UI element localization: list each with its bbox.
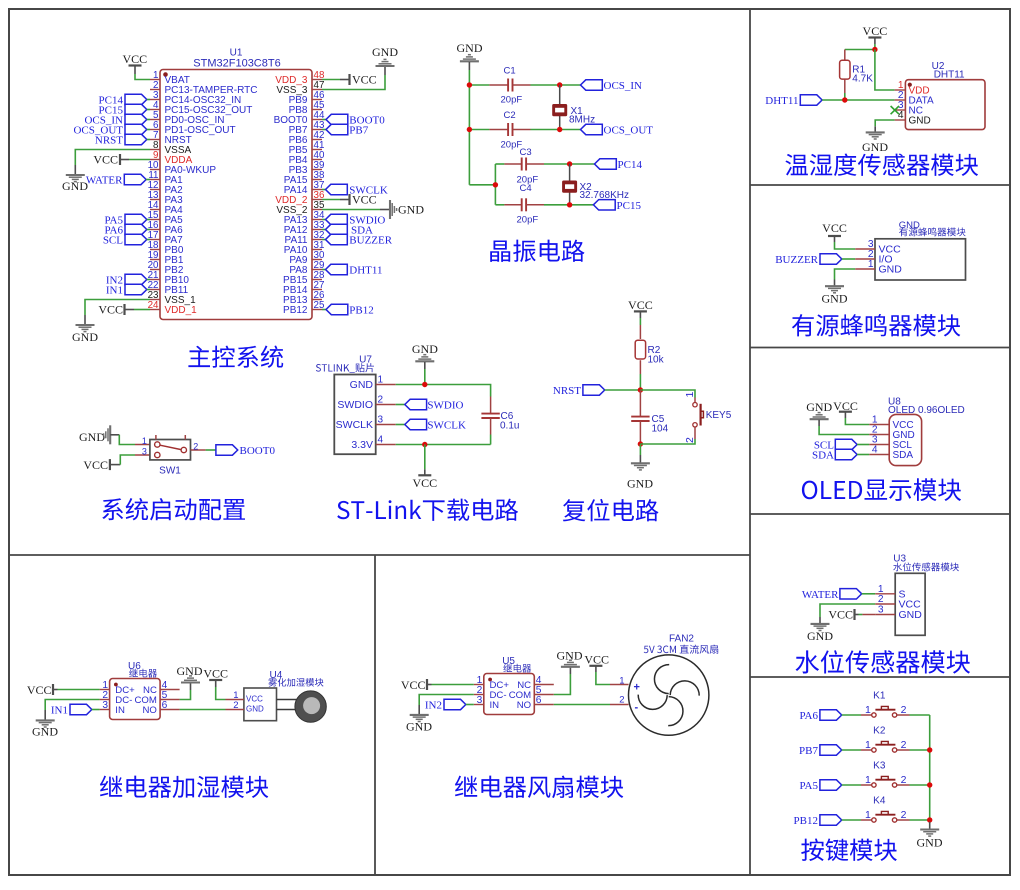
svg-text:PA5: PA5 xyxy=(799,780,818,792)
connector U7 STLINK xyxy=(334,355,395,455)
svg-text:K2: K2 xyxy=(873,726,886,737)
svg-text:GND: GND xyxy=(350,379,374,391)
net flag NRST xyxy=(553,385,641,397)
ground U7 xyxy=(412,342,438,369)
wire xyxy=(544,204,593,206)
svg-text:-: - xyxy=(635,702,639,714)
svg-text:WATER: WATER xyxy=(86,175,123,187)
svg-text:GND: GND xyxy=(398,203,424,217)
svg-text:GND: GND xyxy=(807,629,833,643)
svg-text:PC14: PC14 xyxy=(618,159,643,171)
ground U6 xyxy=(32,710,58,739)
svg-text:GND: GND xyxy=(627,477,653,491)
svg-text:1: 1 xyxy=(378,375,384,386)
power VCC reset xyxy=(628,298,653,318)
wire xyxy=(134,309,150,311)
op-amp U1 MCU STM32F103C8T6 xyxy=(148,48,325,320)
wire VCC to R1 xyxy=(845,49,875,51)
net flag PB12 xyxy=(322,304,374,316)
net flag PC14 xyxy=(595,159,643,171)
capacitor C2 xyxy=(489,110,530,151)
svg-text:4: 4 xyxy=(898,110,904,121)
svg-text:GND: GND xyxy=(62,179,88,193)
svg-text:3: 3 xyxy=(477,695,483,706)
svg-text:GND: GND xyxy=(406,720,432,734)
wire NRST to KEY5 xyxy=(640,390,695,398)
svg-text:VDD_1: VDD_1 xyxy=(165,305,198,316)
ground reset xyxy=(627,455,653,491)
capacitor C3 xyxy=(504,147,544,185)
title temperature humidity sensor module xyxy=(785,154,978,177)
svg-text:OCS_IN: OCS_IN xyxy=(604,80,643,92)
speaker atomizer disc xyxy=(277,691,327,722)
net flag IN1 xyxy=(51,704,100,716)
net flag PB12 key row xyxy=(794,815,861,827)
net flag PC14 xyxy=(99,94,150,106)
svg-text:K4: K4 xyxy=(873,796,886,807)
power VCC U4 xyxy=(203,666,228,687)
wire lead water VCC xyxy=(862,614,875,616)
wire crystal ground bus xyxy=(468,70,470,185)
wire U6 COM to GND xyxy=(180,690,191,700)
wire xyxy=(322,199,340,201)
display U8 OLED xyxy=(869,397,965,466)
ground SW1 xyxy=(79,425,119,444)
net flag BUZZER xyxy=(775,254,855,266)
wire K1 to bus xyxy=(910,714,930,716)
svg-text:VCC: VCC xyxy=(83,458,108,472)
ground DHT11 xyxy=(862,126,888,154)
wire xyxy=(639,444,641,455)
net flag SWCLK xyxy=(396,419,466,431)
wire xyxy=(859,614,863,616)
wire xyxy=(469,129,489,131)
net flag PB7 xyxy=(322,124,369,136)
capacitor C4 xyxy=(504,183,544,226)
wire xyxy=(58,689,100,691)
net flag SCL xyxy=(814,439,869,451)
wire xyxy=(322,79,340,81)
power VCC pin1 xyxy=(122,52,147,74)
net flag OCS_OUT xyxy=(73,124,150,136)
ground buzzer xyxy=(822,280,848,306)
junction C5 bottom xyxy=(638,441,643,446)
label STLINK_chip xyxy=(316,363,374,373)
svg-text:1: 1 xyxy=(868,259,874,270)
svg-text:2: 2 xyxy=(233,700,238,711)
relay U6 xyxy=(100,661,180,720)
net flag BUZZER xyxy=(322,234,393,246)
sensor U2 DHT11 xyxy=(895,61,985,130)
label U4 module name xyxy=(268,678,323,687)
net flag PA6 xyxy=(104,224,150,236)
svg-text:VCC: VCC xyxy=(93,153,118,167)
svg-text:FAN2: FAN2 xyxy=(669,634,694,645)
wire xyxy=(490,435,492,445)
net flag BOOT0 xyxy=(216,445,276,457)
svg-text:BUZZER: BUZZER xyxy=(775,254,818,266)
label U6 relay name xyxy=(129,669,157,678)
capacitor C6 xyxy=(481,397,519,435)
title keys module xyxy=(801,839,897,862)
svg-text:GND: GND xyxy=(177,664,203,678)
wire U2 GND xyxy=(875,120,894,126)
svg-text:VCC: VCC xyxy=(822,221,847,235)
svg-text:KEY5: KEY5 xyxy=(706,410,732,421)
junction K4 xyxy=(927,817,932,822)
svg-text:VCC: VCC xyxy=(98,303,123,317)
svg-text:2: 2 xyxy=(378,395,384,406)
svg-text:PB7: PB7 xyxy=(799,745,818,757)
ground U5 xyxy=(406,705,432,734)
svg-text:GND: GND xyxy=(917,836,943,850)
net flag OCS_IN xyxy=(84,114,150,126)
wire xyxy=(639,374,641,390)
ground U5 COM xyxy=(557,648,583,674)
svg-text:6: 6 xyxy=(162,700,168,711)
power VCC DHT11 xyxy=(863,24,888,44)
svg-text:PB12: PB12 xyxy=(349,305,373,317)
junction K3 xyxy=(927,782,932,787)
svg-text:VCC: VCC xyxy=(584,652,609,666)
wire K4 to bus xyxy=(910,819,930,821)
resistor R2 10k xyxy=(635,325,664,374)
capacitor C1 xyxy=(489,66,530,106)
wire U7 pin4 xyxy=(396,444,491,446)
svg-text:DHT11: DHT11 xyxy=(765,95,798,107)
junction R1 DATA xyxy=(842,97,847,102)
svg-text:VCC: VCC xyxy=(27,683,52,697)
svg-text:3.3V: 3.3V xyxy=(351,439,373,451)
wire xyxy=(129,159,150,161)
power VCC buzzer xyxy=(822,221,847,242)
svg-text:2: 2 xyxy=(901,774,907,786)
svg-text:GND: GND xyxy=(457,41,483,55)
wire VSSA to GND xyxy=(75,150,150,166)
svg-text:IN1: IN1 xyxy=(51,705,68,717)
svg-text:6: 6 xyxy=(536,695,542,706)
svg-text:GND: GND xyxy=(899,609,923,621)
wire xyxy=(424,445,426,470)
net flag BOOT0 xyxy=(322,114,385,126)
svg-text:SWCLK: SWCLK xyxy=(336,419,373,431)
junction node 32k xyxy=(493,182,498,187)
pushbutton KEY5 xyxy=(684,392,732,444)
svg-text:U5: U5 xyxy=(502,656,515,667)
net flag SDA xyxy=(322,224,373,236)
frame divider buzzer/OLED xyxy=(750,347,1010,349)
svg-text:OLED 0.96OLED: OLED 0.96OLED xyxy=(888,405,965,416)
title active buzzer module xyxy=(792,314,960,337)
svg-text:PC15: PC15 xyxy=(617,200,642,212)
wire xyxy=(531,129,581,131)
wire xyxy=(432,684,474,686)
svg-text:WATER: WATER xyxy=(802,589,839,601)
svg-text:DHT11: DHT11 xyxy=(934,69,965,80)
net flag IN2 xyxy=(106,274,150,286)
wire xyxy=(844,93,846,100)
wire VCC to OLED pin1 xyxy=(845,418,869,425)
svg-text:IN1: IN1 xyxy=(106,285,123,297)
net flag SDA xyxy=(812,449,869,461)
pushbutton K2 xyxy=(861,726,910,753)
svg-text:2: 2 xyxy=(684,437,696,443)
svg-text:SW1: SW1 xyxy=(159,466,181,477)
svg-text:BOOT0: BOOT0 xyxy=(240,445,276,457)
net flag PA5 key row xyxy=(799,780,861,792)
junction node PC14 xyxy=(567,161,572,166)
svg-text:SWDIO: SWDIO xyxy=(427,400,463,412)
svg-text:VCC: VCC xyxy=(628,298,653,312)
junction node OCS_OUT xyxy=(557,127,562,132)
label U5 relay name xyxy=(503,664,531,673)
net flag SWDIO xyxy=(396,399,464,411)
svg-text:3: 3 xyxy=(142,446,147,456)
label buzzer module name xyxy=(899,227,966,236)
svg-text:2: 2 xyxy=(901,739,907,751)
svg-text:NO: NO xyxy=(143,705,157,716)
svg-text:GND: GND xyxy=(32,725,58,739)
label FAN2 description xyxy=(644,645,719,654)
wire K3 to bus xyxy=(910,784,930,786)
wire KEY5 to GND xyxy=(640,439,695,444)
wire GND to OLED pin2 xyxy=(819,426,869,435)
junction node OCS_IN xyxy=(557,82,562,87)
junction node C1 left xyxy=(467,82,472,87)
svg-text:U7: U7 xyxy=(359,355,372,366)
svg-text:GND: GND xyxy=(557,648,583,662)
junction node C2 left xyxy=(467,127,472,132)
wire VCC to U2 VDD xyxy=(875,50,895,91)
svg-text:1: 1 xyxy=(865,809,871,821)
svg-text:U6: U6 xyxy=(128,661,141,672)
wire U5 NO to fan pin2 xyxy=(554,704,610,706)
wire U5 COM to GND xyxy=(554,674,571,695)
svg-text:GND: GND xyxy=(412,342,438,356)
net flag PA5 xyxy=(104,214,150,226)
frame divider DHT11/buzzer xyxy=(750,184,1010,186)
svg-text:1: 1 xyxy=(865,739,871,751)
svg-text:GND: GND xyxy=(246,704,264,713)
net flag WATER water module xyxy=(802,589,875,601)
sensor U3 water level xyxy=(875,573,925,635)
power VCC OLED xyxy=(833,399,858,418)
wire U5 DC- to GND xyxy=(419,695,474,706)
junction U7 GND xyxy=(422,382,427,387)
wire 32k vertical xyxy=(494,164,496,205)
junction NRST xyxy=(638,387,643,392)
svg-text:GND: GND xyxy=(372,45,398,59)
wire VSS_2 to GND xyxy=(322,209,380,211)
svg-text:BUZZER: BUZZER xyxy=(349,235,392,247)
wire key ground bus xyxy=(929,715,931,822)
svg-text:0.1u: 0.1u xyxy=(500,421,519,432)
svg-text:4: 4 xyxy=(378,435,384,446)
resistor R1 4.7K xyxy=(840,50,874,94)
pushbutton K1 xyxy=(861,691,910,718)
connector buzzer xyxy=(855,239,965,280)
wire GND to SW1 pin1 xyxy=(119,435,135,445)
svg-text:SCL: SCL xyxy=(103,235,123,247)
wire xyxy=(874,44,876,50)
switch SW1 xyxy=(135,435,206,477)
svg-text:K3: K3 xyxy=(873,761,886,772)
svg-text:VCC: VCC xyxy=(352,193,377,207)
svg-text:2: 2 xyxy=(193,442,198,452)
net flag SWDIO xyxy=(322,214,385,226)
wire VCC to U4 pin1 xyxy=(216,687,226,700)
svg-text:VCC: VCC xyxy=(122,52,147,66)
net flag NRST xyxy=(95,134,150,146)
svg-text:1: 1 xyxy=(865,704,871,716)
wire U6 DC- to GND xyxy=(45,700,99,711)
wire xyxy=(135,74,150,80)
power VCC water module xyxy=(828,608,858,622)
wire xyxy=(424,369,426,385)
frame divider humidifier/fan xyxy=(374,555,376,875)
svg-text:GND: GND xyxy=(72,330,98,344)
net flag PC15 xyxy=(99,104,150,116)
svg-text:+: + xyxy=(634,682,640,694)
title relay humidifier module xyxy=(100,776,268,798)
ground pin23 VSS_1 xyxy=(72,315,98,344)
frame right column divider xyxy=(749,9,751,875)
title main control system xyxy=(188,346,283,368)
module U4 atomizer xyxy=(226,670,283,721)
title OLED display module xyxy=(802,478,961,501)
ground water module xyxy=(807,617,833,643)
wire VCC to fan pin1 xyxy=(596,672,610,685)
svg-text:PA6: PA6 xyxy=(799,710,818,722)
svg-text:VCC: VCC xyxy=(828,608,853,622)
title system boot config xyxy=(102,498,245,521)
svg-text:VCC: VCC xyxy=(401,678,426,692)
svg-text:1: 1 xyxy=(684,392,696,398)
svg-text:SWDIO: SWDIO xyxy=(337,399,373,411)
svg-text:1: 1 xyxy=(142,436,147,446)
ground U6 COM xyxy=(177,664,203,690)
svg-text:IN: IN xyxy=(115,705,125,716)
no-connect X on U2 pin3 xyxy=(891,106,899,114)
svg-text:K1: K1 xyxy=(873,691,886,702)
wire K2 to bus xyxy=(910,749,930,751)
title crystal circuit xyxy=(490,240,584,262)
svg-text:PB7: PB7 xyxy=(349,125,368,137)
svg-text:3: 3 xyxy=(878,605,884,616)
svg-text:IN2: IN2 xyxy=(425,700,442,712)
svg-text:VCC: VCC xyxy=(203,666,228,680)
wire xyxy=(469,84,489,86)
wire xyxy=(495,163,504,165)
wire to 32k group xyxy=(469,184,495,186)
svg-text:3: 3 xyxy=(102,700,108,711)
svg-text:2: 2 xyxy=(878,594,884,605)
svg-text:OCS_OUT: OCS_OUT xyxy=(604,125,654,137)
junction VCC DHT11 xyxy=(872,47,877,52)
title reset circuit xyxy=(563,499,659,522)
svg-text:2: 2 xyxy=(619,695,624,706)
svg-text:VCC: VCC xyxy=(352,73,377,87)
wire buzzer pin1 to GND xyxy=(835,269,856,280)
svg-text:104: 104 xyxy=(652,424,669,435)
net flag IN1 xyxy=(106,284,150,296)
svg-text:1: 1 xyxy=(865,774,871,786)
net flag IN2 xyxy=(425,699,474,711)
ground crystal circuit xyxy=(457,41,483,70)
net flag DHT11 xyxy=(765,95,894,107)
ground pin8 VSSA xyxy=(62,165,88,193)
net flag PA6 key row xyxy=(799,710,861,722)
power VCC U6 xyxy=(27,683,58,697)
svg-text:C1: C1 xyxy=(504,66,516,77)
svg-text:U3: U3 xyxy=(893,554,906,565)
wire VSS_3 to GND xyxy=(322,75,385,90)
pushbutton K4 xyxy=(861,796,910,823)
title ST-Link download circuit xyxy=(337,499,518,521)
svg-text:2: 2 xyxy=(901,704,907,716)
svg-text:SWCLK: SWCLK xyxy=(427,420,466,432)
svg-text:PB12: PB12 xyxy=(794,815,818,827)
svg-text:20pF: 20pF xyxy=(517,214,539,225)
power VCC pin9 VDDA xyxy=(93,153,129,167)
label U3 module name xyxy=(893,563,959,572)
net flag DHT11 xyxy=(322,264,383,276)
frame divider OLED/water xyxy=(750,513,1010,515)
svg-text:NO: NO xyxy=(517,700,531,711)
svg-text:PB12: PB12 xyxy=(283,305,308,316)
power VCC U5 xyxy=(401,678,432,692)
net flag SCL xyxy=(103,234,150,246)
svg-text:GND: GND xyxy=(822,292,848,306)
svg-text:C2: C2 xyxy=(504,110,516,121)
motor FAN2 xyxy=(610,634,709,736)
svg-text:VCC: VCC xyxy=(863,24,888,38)
title water level sensor module xyxy=(796,650,971,673)
power VCC pin24 VDD_1 xyxy=(98,303,134,317)
svg-text:SDA: SDA xyxy=(893,450,914,461)
title relay fan module xyxy=(455,776,623,799)
svg-text:NRST: NRST xyxy=(553,385,581,397)
net flag SWCLK xyxy=(322,184,388,196)
ground OLED xyxy=(806,400,832,426)
junction K2 xyxy=(927,747,932,752)
svg-text:GND: GND xyxy=(79,430,105,444)
svg-text:GND: GND xyxy=(909,115,931,126)
crystal X2 32.768KHz xyxy=(562,164,629,205)
pushbutton K3 xyxy=(861,761,910,788)
wire xyxy=(639,318,641,325)
net flag OCS_OUT xyxy=(581,124,654,136)
wire VCC to SW1 pin3 xyxy=(120,455,135,465)
wire xyxy=(495,204,504,206)
svg-text:GND: GND xyxy=(862,140,888,154)
svg-text:C3: C3 xyxy=(520,147,532,158)
svg-text:U4: U4 xyxy=(270,670,283,681)
wire U3 pin2 to GND xyxy=(820,604,875,617)
ground pin35 VSS_2 xyxy=(380,200,424,219)
wire VCC to buzzer pin3 xyxy=(835,242,856,249)
wire VSS_1 to GND xyxy=(85,300,150,316)
net flag WATER xyxy=(86,174,150,186)
svg-text:4.7K: 4.7K xyxy=(852,74,873,85)
power VCC U7 xyxy=(412,469,437,490)
frame divider main/bottom xyxy=(9,554,750,556)
svg-text:GND: GND xyxy=(879,264,903,276)
svg-text:10k: 10k xyxy=(648,355,665,366)
wire U6 NO to U4 pin2 xyxy=(180,709,226,711)
svg-text:NRST: NRST xyxy=(95,135,123,147)
svg-text:3: 3 xyxy=(378,415,384,426)
